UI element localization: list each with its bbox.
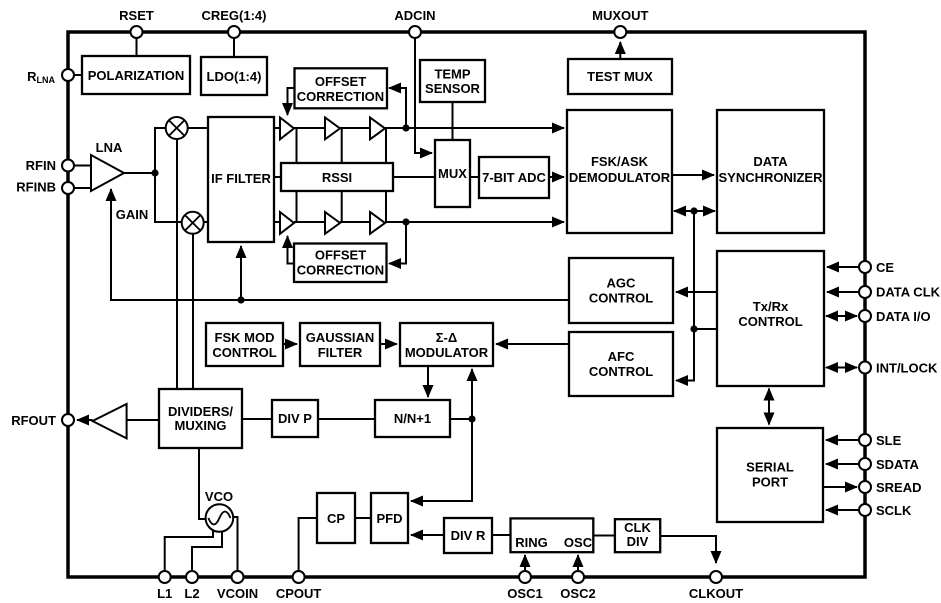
svg-text:SYNCHRONIZER: SYNCHRONIZER	[718, 170, 823, 185]
svg-text:MUXOUT: MUXOUT	[592, 8, 648, 23]
svg-text:SENSOR: SENSOR	[425, 81, 481, 96]
svg-text:ADCIN: ADCIN	[394, 8, 435, 23]
svg-text:LDO(1:4): LDO(1:4)	[207, 69, 262, 84]
svg-text:SDATA: SDATA	[876, 457, 919, 472]
svg-text:DIV P: DIV P	[278, 411, 312, 426]
svg-text:CONTROL: CONTROL	[212, 345, 276, 360]
svg-text:SCLK: SCLK	[876, 503, 912, 518]
svg-text:IF FILTER: IF FILTER	[211, 171, 271, 186]
svg-text:RSSI: RSSI	[322, 170, 352, 185]
svg-text:7-BIT ADC: 7-BIT ADC	[482, 170, 546, 185]
svg-text:L1: L1	[157, 586, 172, 601]
svg-text:RSET: RSET	[119, 8, 154, 23]
svg-text:CE: CE	[876, 260, 894, 275]
svg-text:GAUSSIAN: GAUSSIAN	[306, 330, 375, 345]
svg-text:PORT: PORT	[752, 475, 788, 490]
svg-text:Tx/Rx: Tx/Rx	[753, 299, 789, 314]
svg-text:VCOIN: VCOIN	[217, 586, 258, 601]
svg-text:FILTER: FILTER	[318, 345, 363, 360]
svg-text:CPOUT: CPOUT	[276, 586, 322, 601]
svg-text:GAIN: GAIN	[116, 207, 149, 222]
svg-text:L2: L2	[184, 586, 199, 601]
svg-text:CONTROL: CONTROL	[738, 314, 802, 329]
svg-text:DIVIDERS/: DIVIDERS/	[168, 404, 233, 419]
svg-text:Σ-Δ: Σ-Δ	[436, 330, 457, 345]
svg-text:MUXING: MUXING	[175, 418, 227, 433]
svg-text:CORRECTION: CORRECTION	[297, 263, 384, 278]
svg-text:DATA: DATA	[753, 154, 788, 169]
svg-text:OFFSET: OFFSET	[315, 248, 366, 263]
svg-text:SREAD: SREAD	[876, 480, 922, 495]
svg-text:OSC2: OSC2	[560, 586, 595, 601]
svg-text:POLARIZATION: POLARIZATION	[88, 68, 185, 83]
svg-text:TEST MUX: TEST MUX	[587, 69, 653, 84]
svg-text:RING: RING	[515, 535, 548, 550]
svg-text:FSK/ASK: FSK/ASK	[591, 154, 649, 169]
svg-text:SLE: SLE	[876, 433, 902, 448]
svg-text:LNA: LNA	[96, 140, 123, 155]
svg-text:OFFSET: OFFSET	[315, 74, 366, 89]
svg-text:RFOUT: RFOUT	[11, 413, 56, 428]
svg-text:CLKOUT: CLKOUT	[689, 586, 743, 601]
svg-text:SERIAL: SERIAL	[746, 460, 794, 475]
svg-text:CLK: CLK	[624, 520, 651, 535]
svg-text:INT/LOCK: INT/LOCK	[876, 361, 938, 376]
svg-text:DIV: DIV	[627, 534, 649, 549]
svg-text:CORRECTION: CORRECTION	[297, 89, 384, 104]
svg-text:FSK MOD: FSK MOD	[215, 330, 275, 345]
svg-text:CREG(1:4): CREG(1:4)	[201, 8, 266, 23]
svg-text:DIV R: DIV R	[451, 528, 486, 543]
svg-text:PFD: PFD	[377, 511, 403, 526]
svg-text:AFC: AFC	[608, 349, 635, 364]
svg-text:DATA I/O: DATA I/O	[876, 309, 931, 324]
svg-text:OSC1: OSC1	[507, 586, 542, 601]
svg-text:RFIN: RFIN	[26, 158, 56, 173]
svg-text:TEMP: TEMP	[434, 67, 470, 82]
svg-text:OSC: OSC	[564, 535, 593, 550]
svg-text:DEMODULATOR: DEMODULATOR	[569, 170, 671, 185]
svg-text:N/N+1: N/N+1	[394, 411, 431, 426]
svg-text:AGC: AGC	[607, 276, 637, 291]
svg-text:CONTROL: CONTROL	[589, 364, 653, 379]
svg-text:CONTROL: CONTROL	[589, 291, 653, 306]
svg-text:DATA CLK: DATA CLK	[876, 285, 941, 300]
svg-text:RFINB: RFINB	[16, 180, 56, 195]
svg-text:VCO: VCO	[205, 489, 233, 504]
svg-text:MUX: MUX	[438, 166, 467, 181]
svg-text:MODULATOR: MODULATOR	[405, 345, 489, 360]
svg-text:CP: CP	[327, 511, 345, 526]
